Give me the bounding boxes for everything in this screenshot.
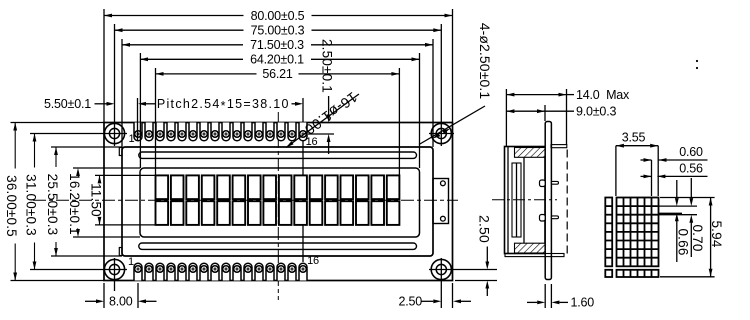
svg-text:0.66: 0.66 xyxy=(676,228,691,255)
svg-text:80.00±0.5: 80.00±0.5 xyxy=(251,9,305,23)
svg-text:8.00: 8.00 xyxy=(109,295,133,309)
svg-text:14.0 Max: 14.0 Max xyxy=(576,88,630,102)
svg-text:16: 16 xyxy=(306,136,318,148)
dimension 11.50 xyxy=(99,175,101,178)
dimension 64.20±0.1 xyxy=(140,58,243,60)
dimension Pitch2.54*15=38.10 xyxy=(146,103,155,105)
ext line dot row3 top xyxy=(659,214,698,216)
side view bezel bottom flange tab xyxy=(505,254,564,257)
ext line 5.94 top xyxy=(660,197,715,199)
ext line 25.50 bottom (bezel bottom edge) xyxy=(51,255,122,257)
ext line 71.50 right (bezel right edge) xyxy=(432,39,434,147)
side view PCB edge xyxy=(545,122,551,280)
ext line 80.00 left (pcb left edge) xyxy=(103,9,105,123)
dimension 80.00±0.5 xyxy=(104,15,244,17)
leader 16-ø1.00 xyxy=(286,94,359,148)
side view LCD glass mid line xyxy=(516,163,518,237)
svg-text:2.50: 2.50 xyxy=(477,215,493,243)
svg-text:36.00±0.5: 36.00±0.5 xyxy=(4,175,19,237)
side view bezel section outline xyxy=(505,147,546,254)
ext line 3.55 right / dot col6 right xyxy=(657,146,659,196)
svg-text:16: 16 xyxy=(307,255,319,267)
dimension 75.00±0.3 xyxy=(115,29,244,31)
bezel top slot xyxy=(139,152,417,158)
ext line 9.0 right (pcb front) xyxy=(544,105,546,121)
dimension 31.00±0.3 xyxy=(34,134,36,168)
dimension 9.0±0.3 xyxy=(506,110,545,112)
ext line 3.55 left xyxy=(615,146,617,196)
svg-text:75.00±0.3: 75.00±0.3 xyxy=(251,24,305,38)
ext line dot row2 bottom xyxy=(659,212,683,214)
pin row top: 16 plated slots xyxy=(134,123,307,141)
bezel bottom slot xyxy=(139,243,417,249)
mounting hole top-right pad xyxy=(431,123,451,143)
hole centerline horizontal bottom-left (31.00 ext) xyxy=(30,269,127,271)
side view backlight pin K end xyxy=(551,216,558,219)
ext line 71.50 left (bezel left edge) xyxy=(121,39,123,147)
mounting hole bottom-left pad xyxy=(104,259,124,279)
dimension 71.50±0.3 xyxy=(122,44,243,46)
svg-text:5.94: 5.94 xyxy=(709,220,724,247)
ext line 11.50 bottom (cells bottom edge) xyxy=(95,224,156,226)
hole centerline vertical bottom-left xyxy=(114,258,116,291)
svg-text:64.20±0.1: 64.20±0.1 xyxy=(250,53,304,67)
ext line 14.0 left (bezel front) xyxy=(505,89,507,147)
dimension 0.66 (dot height, rotated) xyxy=(676,180,678,198)
svg-text:16.20±0.1: 16.20±0.1 xyxy=(67,173,82,235)
ext line 1.60 left xyxy=(544,284,546,308)
svg-text:9.0±0.3: 9.0±0.3 xyxy=(576,105,616,119)
mounting hole top-left pad xyxy=(104,123,124,143)
hole centerline horizontal top-right xyxy=(429,133,454,135)
svg-text:0.70: 0.70 xyxy=(690,224,705,251)
dimension 0.60 (dot pitch) xyxy=(641,159,652,161)
side view bezel hatch top xyxy=(515,148,546,158)
svg-text:1.60: 1.60 xyxy=(571,296,595,310)
side view bezel inner wall xyxy=(523,157,525,243)
svg-text:2.50: 2.50 xyxy=(399,295,423,309)
ext line 64.20 left (window left edge) xyxy=(139,53,141,168)
svg-text:5.50±0.1: 5.50±0.1 xyxy=(44,97,91,111)
dimension 5.94 (character height, rotated) xyxy=(710,198,712,277)
mounting hole bottom-right pad xyxy=(431,259,451,279)
ext line 36.00 bottom (pcb bottom edge) xyxy=(11,280,105,282)
dimension 3.55 (character pitch) xyxy=(616,145,658,147)
mounting hole top-left drill xyxy=(109,128,119,138)
ext line 1.60 right xyxy=(550,284,552,308)
ext line dot row2 top xyxy=(659,205,698,207)
front view PCB outline xyxy=(104,123,453,281)
svg-text:4-ø2.50±0.1: 4-ø2.50±0.1 xyxy=(477,23,493,100)
ext line pin16 row center xyxy=(308,133,334,135)
svg-text:2.50±0.1: 2.50±0.1 xyxy=(320,39,335,93)
svg-text:31.00±0.3: 31.00±0.3 xyxy=(23,174,38,236)
hole centerline vertical top-left (75.00/5.50 ext) xyxy=(114,24,116,146)
bezel left tab bottom xyxy=(119,248,122,256)
mounting hole bottom-left drill xyxy=(109,264,119,274)
svg-text:71.50±0.3: 71.50±0.3 xyxy=(250,38,304,52)
ext line 5.94 bottom xyxy=(660,276,715,278)
svg-text:0.60: 0.60 xyxy=(679,145,703,159)
svg-text:56.21: 56.21 xyxy=(262,67,293,81)
svg-text:1: 1 xyxy=(129,133,135,145)
side view LCD glass edge xyxy=(512,163,521,237)
dimension 1.60 (pcb thickness) xyxy=(527,301,537,303)
side view backlight pin A shoulder xyxy=(540,180,546,187)
ext line pcb bottom edge right xyxy=(455,280,497,282)
front view vertical centerline xyxy=(277,112,279,300)
dimension 0.56 (dot width) xyxy=(641,175,652,177)
ext line 2.50 right (pcb right edge) xyxy=(452,283,454,308)
dimension 56.21 xyxy=(156,73,257,75)
bezel left tab top xyxy=(119,148,122,156)
ext line dot col6 left xyxy=(651,160,653,196)
dimension 14.0 Max xyxy=(506,94,566,96)
hole centerline horizontal top-left (31.00 ext) xyxy=(30,133,127,135)
display window opening xyxy=(140,168,420,237)
side view backlight pin K shoulder xyxy=(540,215,546,222)
ext line 8.00 right (pin1 center) xyxy=(137,283,139,308)
svg-text:Pitch2.54*15=38.10: Pitch2.54*15=38.10 xyxy=(157,97,290,113)
side view bezel top flange tab xyxy=(551,145,567,148)
ext line 25.50 top (bezel top edge) xyxy=(51,146,122,148)
dimension 8.00 (pcb edge to pin1) xyxy=(85,300,96,302)
ext line 8.00 left (pcb left edge) xyxy=(103,283,105,308)
ext line 11.50 top (cells top edge) xyxy=(95,174,156,176)
mounting hole top-right drill xyxy=(436,128,446,138)
dimension 16.20±0.1 xyxy=(77,167,79,169)
bezel outer frame xyxy=(122,147,433,256)
ext line 64.20 right (window right edge) xyxy=(419,53,421,168)
leader 4-ø2.50 to top-right hole xyxy=(419,106,485,145)
dimension 25.50±0.3 xyxy=(55,147,57,167)
front view horizontal centerline xyxy=(33,199,458,201)
dimension 0.70 (dot vertical pitch, rotated) xyxy=(690,178,692,198)
svg-text:11.50: 11.50 xyxy=(88,183,103,217)
svg-text:0.56: 0.56 xyxy=(679,161,703,175)
ext line 16.20 top (window top edge) xyxy=(73,167,140,169)
side view max component envelope (dashed) xyxy=(566,150,568,254)
ext line 80.00 right (pcb right edge) xyxy=(452,9,454,123)
hole centerline vertical top-right (75.00 ext) xyxy=(440,24,442,146)
ext line 56.21 right (cells right edge) xyxy=(398,68,400,175)
svg-text:3.55: 3.55 xyxy=(622,130,646,144)
dot matrix character grid 6x8 + cursor row xyxy=(617,198,659,278)
pin16 extension line (top to bottom row) xyxy=(302,98,304,262)
stray ink dots xyxy=(696,60,698,62)
ext line 14.0 right (envelope) xyxy=(566,89,568,145)
side view bezel hatch bottom xyxy=(515,243,546,253)
dimension 36.00±0.5 xyxy=(14,123,16,169)
backlight connector pad block xyxy=(433,179,449,224)
backlight connector hole A xyxy=(441,181,446,186)
dot matrix neighbour column (8 dots + cursor dot) xyxy=(605,198,612,278)
pin row bottom: 16 plated slots xyxy=(134,263,307,280)
ext line pin1 center xyxy=(137,98,139,140)
mounting hole bottom-right drill xyxy=(436,264,446,274)
hole centerline vertical bottom-right (2.50 ext) xyxy=(440,258,442,308)
side view bezel front face inner line xyxy=(507,147,509,254)
side view backlight pin A end xyxy=(551,181,558,184)
hole centerline horizontal bottom-right (2.50 ext) xyxy=(429,269,497,271)
side view horizontal centerline xyxy=(492,199,557,201)
svg-text:25.50±0.3: 25.50±0.3 xyxy=(45,174,60,236)
ext line 36.00 top (pcb top edge) xyxy=(11,122,105,124)
ext line 16.20 bottom (window bottom edge) xyxy=(73,236,140,238)
svg-text:1: 1 xyxy=(128,256,134,268)
character cells 16x2 xyxy=(156,175,400,225)
backlight connector hole K xyxy=(441,216,446,221)
ext line 56.21 left (cells left edge) xyxy=(155,68,157,175)
